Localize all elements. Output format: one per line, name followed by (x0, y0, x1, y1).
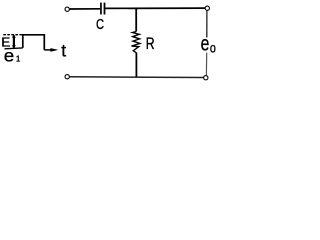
svg-text:o: o (210, 40, 216, 56)
wire: right lead lower (205, 53, 207, 76)
wire: resistor bottom lead (135, 53, 137, 77)
svg-text:e: e (201, 31, 210, 55)
svg-text:R: R (146, 35, 155, 53)
wire: resistor top lead (135, 9, 137, 32)
svg-text:t: t (61, 40, 66, 60)
dashed E-level line (3, 34, 22, 36)
wire: right lead upper (206, 11, 208, 38)
time axis with arrow (44, 48, 58, 52)
terminal: top-left (65, 7, 69, 11)
svg-text:1: 1 (16, 54, 21, 63)
svg-text:e: e (4, 46, 14, 65)
wire: top-left to capacitor (70, 8, 101, 10)
input pulse waveform e1 (23, 35, 45, 50)
zero baseline before pulse (5, 47, 23, 50)
capacitor C plates (101, 3, 105, 15)
svg-text:C: C (96, 16, 104, 33)
terminal: top-right (205, 6, 209, 10)
amplitude dimension arrow (double-headed) (12, 34, 16, 49)
terminal: bottom-right (204, 76, 208, 80)
terminal: bottom-left (65, 75, 69, 79)
wire: capacitor to top-right terminal (105, 7, 205, 9)
wire: bottom rail (69, 76, 203, 79)
resistor R zigzag (132, 32, 140, 53)
